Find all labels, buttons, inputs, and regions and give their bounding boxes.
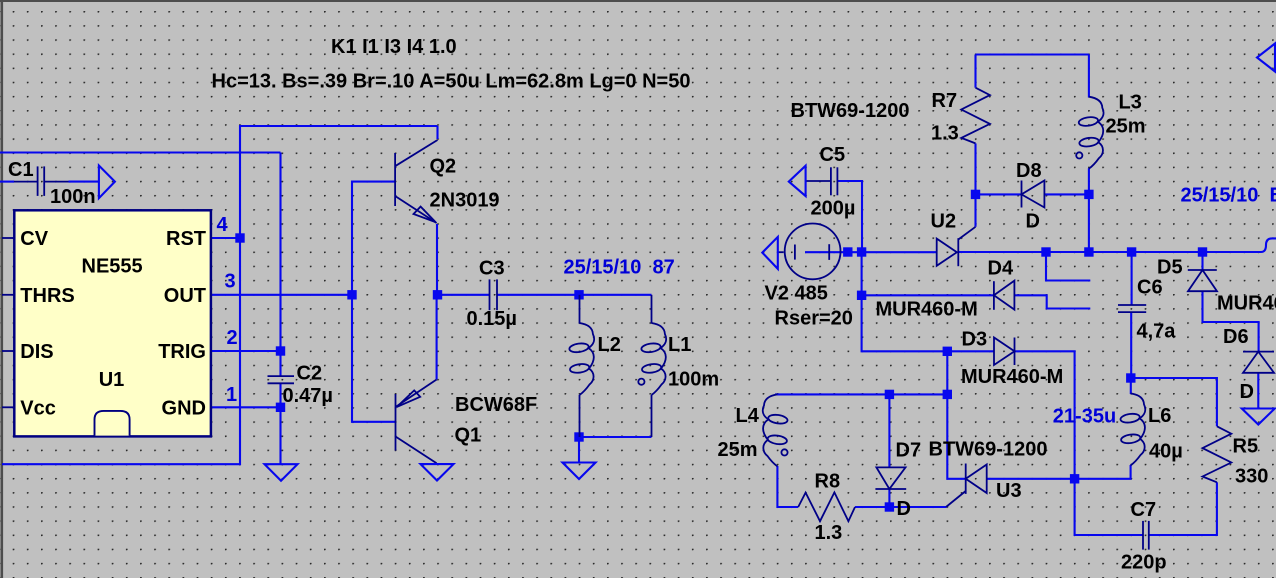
svg-text:MUR460-M: MUR460-M (1217, 293, 1276, 315)
wire vertical C1-net down to TRIG/C2 x=280.5 (279, 153, 281, 377)
junction D4 row (857, 291, 866, 300)
svg-text:1: 1 (226, 384, 237, 406)
capacitor C3 (490, 279, 498, 310)
thyristor U2 BTW69-1200 (937, 227, 976, 266)
junction main row / C6 (1127, 247, 1136, 256)
wire OUT row right of C3 (498, 294, 652, 296)
svg-text:C3: C3 (479, 257, 505, 279)
wire L6 top lead (1130, 378, 1132, 394)
capacitor C1 (14, 166, 69, 196)
svg-text:40µ: 40µ (1149, 441, 1183, 463)
IC U1 NE555 body (14, 210, 211, 436)
wire D5 top lead (1201, 252, 1203, 270)
svg-text:D3: D3 (962, 329, 988, 351)
junction L2 top / OUT (574, 290, 583, 299)
svg-text:220p: 220p (1121, 551, 1167, 573)
pin stub THRS (2, 294, 14, 296)
wire TRIG pin stub (211, 350, 281, 352)
wire main row down to D4 row (861, 252, 863, 295)
thyristor U3 BTW69-1200 (946, 464, 987, 508)
svg-text:GND: GND (162, 397, 206, 419)
window border top edge (0, 0, 1276, 2)
wire Q2 collector top (436, 126, 438, 139)
junction L4 row / U3 riser (943, 390, 952, 399)
wire D7 top lead (888, 394, 890, 467)
ground below L2 (563, 463, 596, 480)
wire RST rail: up and over to Q2 collector (2, 126, 438, 464)
svg-text:MUR460-M: MUR460-M (961, 366, 1063, 388)
wire L2 bottom row to L1 (579, 436, 652, 438)
wire D4 node down and over to D3 (862, 295, 948, 351)
diode D3 MUR460-M (994, 338, 1015, 366)
pin stub DIS (2, 350, 14, 352)
ground below Q1 (421, 464, 454, 480)
wire top-left rail y=152.5 (0, 151, 281, 153)
svg-text:Hc=13. Bs=.39 Br=.10 A=50u Lm=: Hc=13. Bs=.39 Br=.10 A=50u Lm=62.8m Lg=0… (212, 71, 691, 93)
svg-text:L3: L3 (1119, 92, 1142, 114)
svg-text:U3: U3 (996, 480, 1022, 502)
wire Q1 emitter from OUT row (436, 295, 438, 380)
junction Q2 base / OUT (347, 290, 356, 299)
svg-text:3: 3 (225, 271, 236, 293)
diode D5 MUR460 (1188, 270, 1217, 291)
svg-text:25/15/10 87: 25/15/10 87 (564, 256, 675, 278)
wire L3 top lead (1088, 55, 1090, 98)
junction U3 anode / C7 branch (1070, 474, 1079, 483)
diode D8 (1022, 181, 1045, 208)
port arrow C1 output (99, 166, 115, 199)
wire main row exit curve right edge (1259, 238, 1276, 252)
ground below C2 (265, 464, 298, 481)
svg-text:D7: D7 (896, 440, 922, 462)
svg-text:R5: R5 (1233, 436, 1259, 458)
port arrow V2 (762, 237, 778, 269)
wire V2 to U2 main row (805, 251, 937, 253)
inductor L4 (763, 394, 788, 466)
wire C5 to main row drop (837, 181, 862, 252)
svg-text:D6: D6 (1223, 326, 1249, 348)
diode D6 (1243, 352, 1274, 373)
junction main row / D5 (1198, 247, 1207, 256)
svg-text:NE555: NE555 (82, 256, 143, 278)
svg-text:D: D (1240, 381, 1254, 403)
svg-text:Rser=20: Rser=20 (775, 308, 853, 330)
svg-text:0.15µ: 0.15µ (467, 308, 517, 330)
svg-text:OUT: OUT (164, 285, 206, 307)
svg-text:C2: C2 (297, 363, 323, 385)
svg-text:25/15/10 B: 25/15/10 B (1181, 185, 1276, 207)
junction C5 drop / main row (857, 247, 866, 256)
svg-text:C5: C5 (820, 144, 846, 166)
inductor L6 (1120, 393, 1145, 465)
svg-text:4,7a: 4,7a (1137, 321, 1177, 343)
capacitor C5 (806, 167, 838, 195)
svg-text:25m: 25m (718, 439, 758, 461)
svg-text:200µ: 200µ (811, 198, 856, 220)
svg-text:C1: C1 (8, 159, 34, 181)
wire C2 bottom to ground (279, 383, 281, 464)
svg-text:D4: D4 (988, 258, 1014, 280)
svg-text:C6: C6 (1137, 277, 1163, 299)
resistor R5 (1203, 426, 1232, 482)
svg-text:Vcc: Vcc (20, 397, 56, 419)
svg-text:25m: 25m (1106, 116, 1146, 138)
wire D5 anode to D6 (1203, 291, 1259, 351)
svg-text:D: D (897, 498, 911, 520)
capacitor C2 (268, 376, 295, 383)
wire C6 top lead (1131, 252, 1133, 305)
wire D8 row right (1044, 193, 1089, 195)
svg-text:Q2: Q2 (430, 156, 457, 178)
wire C6 bottom lead (1130, 312, 1132, 378)
svg-text:L1: L1 (668, 334, 691, 356)
resistor R7 (961, 88, 990, 144)
IC U1 bottom notch (95, 411, 130, 436)
junction V2 plus terminal (843, 247, 852, 256)
svg-text:100m: 100m (668, 369, 719, 391)
wire U3 anode row to L6 bottom (987, 465, 1131, 479)
wire R7-L3 top rail (976, 53, 1089, 55)
junction TRIG / C2 (276, 346, 285, 355)
wire D8 row left (976, 193, 1022, 195)
transistor Q2 2N3019 (395, 140, 437, 223)
port arrow C5 (789, 166, 806, 196)
wire U3 node down to C7 (1075, 479, 1143, 535)
svg-text:R8: R8 (815, 471, 841, 493)
svg-text:MUR460-M: MUR460-M (876, 299, 978, 321)
junction R7 / D8 / U2 gate (971, 190, 980, 199)
wire D8 node down to main row (1088, 194, 1090, 252)
junction D3 / U3 riser (943, 347, 952, 356)
capacitor C7 (1143, 521, 1149, 550)
diode D7 (875, 467, 906, 489)
svg-text:D8: D8 (1016, 160, 1042, 182)
svg-text:2: 2 (227, 327, 238, 349)
svg-text:330: 330 (1235, 466, 1268, 488)
junction D7 cathode / R8 (885, 502, 894, 511)
junction L3 / D8 (1084, 190, 1093, 199)
wire main row stub dead-end (1046, 252, 1090, 281)
junction main row stub (1041, 247, 1050, 256)
inductor L1 (638, 295, 666, 437)
svg-text:0.47µ: 0.47µ (283, 385, 333, 407)
junction L4 row / D7 (885, 390, 894, 399)
svg-text:U1: U1 (99, 369, 125, 391)
svg-text:1.3: 1.3 (931, 123, 959, 145)
wire L4 top row (775, 393, 947, 395)
svg-text:BTW69-1200: BTW69-1200 (929, 439, 1048, 461)
voltage source V2 (778, 224, 841, 280)
svg-text:C7: C7 (1131, 499, 1157, 521)
junction Q2 emitter / OUT (433, 290, 442, 299)
junction main row / D8 branch (1084, 247, 1093, 256)
window border left edge (1, 0, 4, 578)
wire R7 top lead (974, 55, 976, 88)
wire D3 cathode over and down to U3 node (1015, 351, 1075, 479)
svg-text:RST: RST (166, 228, 206, 250)
svg-text:BCW68F: BCW68F (455, 394, 537, 416)
wire D7 bottom lead (888, 489, 890, 507)
junction L2 bottom (574, 432, 583, 441)
inductor L3 (1076, 97, 1103, 169)
svg-text:D: D (1026, 211, 1040, 233)
wire OUT row from box to Q2 base node (211, 294, 352, 296)
ground below D6 (1242, 409, 1275, 425)
svg-text:D5: D5 (1157, 257, 1183, 279)
wire Q1 base drop from OUT row (352, 295, 396, 422)
junction GND / C2 (276, 403, 285, 412)
svg-text:21-35u: 21-35u (1053, 406, 1116, 428)
svg-text:L6: L6 (1148, 405, 1171, 427)
wire D4 anode jog dead-end (1014, 295, 1090, 308)
svg-text:Q1: Q1 (455, 425, 482, 447)
svg-text:U2: U2 (931, 211, 957, 233)
svg-text:CV: CV (20, 228, 48, 250)
wire D6 anode to ground (1257, 373, 1259, 409)
pin stub CV (2, 237, 14, 239)
wire GND pin stub (211, 406, 281, 408)
svg-text:BTW69-1200: BTW69-1200 (791, 100, 910, 122)
diode D4 MUR460-M (994, 281, 1015, 310)
wire Q2 base drop from OUT row (352, 182, 395, 295)
wire C7 to R5 bottom (1149, 482, 1217, 535)
wire D3 anode stub (947, 350, 994, 352)
wire D4 cathode row (862, 294, 994, 296)
wire C1 to port (69, 181, 99, 183)
wire R8 to D7 node (855, 506, 946, 508)
svg-text:L4: L4 (736, 405, 760, 427)
pin stub Vcc (2, 406, 14, 408)
wire L3 bottom lead (1088, 168, 1090, 194)
wire Q2 emitter to OUT row (436, 224, 438, 295)
capacitor C6 (1118, 305, 1146, 312)
svg-text:THRS: THRS (20, 285, 74, 307)
wire L4 bottom to R8 (777, 466, 798, 507)
svg-text:2N3019: 2N3019 (430, 189, 500, 211)
svg-text:4: 4 (217, 214, 229, 236)
inductor L2 (569, 295, 594, 437)
wire D3 node down to U3 cathode (947, 351, 965, 479)
port arrow top right (1257, 44, 1275, 72)
wire Q2 emitter node to C3 (437, 294, 490, 296)
resistor R8 (798, 492, 855, 521)
wire U2 gate riser (974, 194, 976, 226)
svg-text:1.3: 1.3 (815, 522, 843, 544)
svg-text:V2 485: V2 485 (765, 282, 828, 304)
svg-text:100n: 100n (50, 186, 96, 208)
wire C6 bottom row to R5 top (1131, 378, 1217, 426)
junction C6 bottom / L6 / R5 (1126, 373, 1135, 382)
wire U2 cathode to D5 node main row (958, 251, 1259, 253)
svg-text:DIS: DIS (20, 341, 53, 363)
transistor Q1 BCW68F (396, 380, 437, 464)
wire C1 left lead (0, 181, 14, 183)
svg-text:R7: R7 (932, 90, 958, 112)
wire L2 lead bottom to ground (578, 437, 580, 463)
svg-text:TRIG: TRIG (158, 341, 206, 363)
wire RST pin stub (211, 237, 240, 239)
wire R7 bottom lead (974, 143, 976, 194)
junction RST node (235, 233, 244, 242)
svg-text:L2: L2 (598, 334, 621, 356)
svg-text:K1 I1 I3 I4 1.0: K1 I1 I3 I4 1.0 (331, 36, 457, 58)
